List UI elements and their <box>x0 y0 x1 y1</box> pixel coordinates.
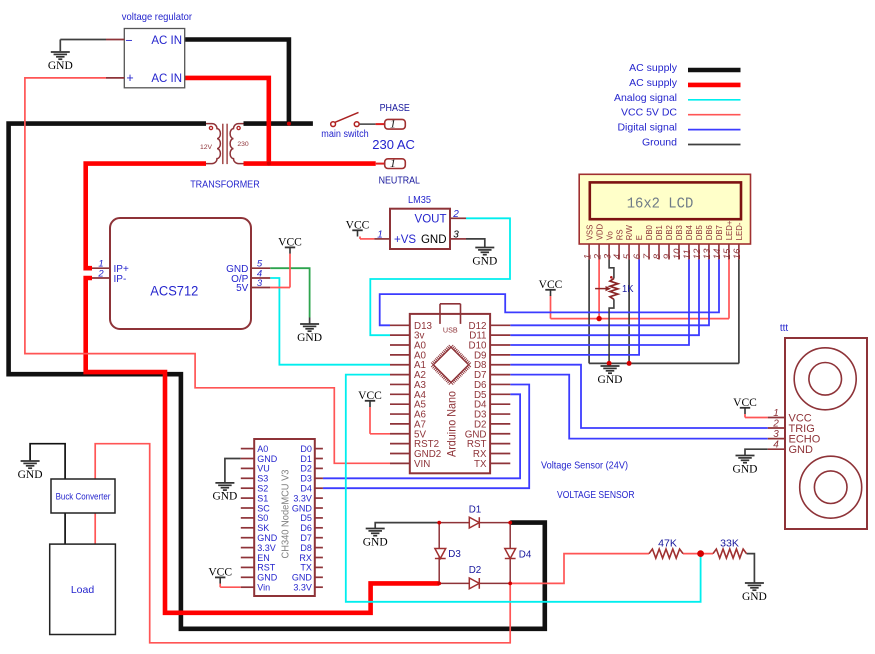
svg-text:D8: D8 <box>300 543 312 553</box>
svg-text:DB6: DB6 <box>705 225 714 240</box>
svg-text:AC IN: AC IN <box>151 73 182 85</box>
svg-text:5V: 5V <box>236 283 249 294</box>
svg-text:2: 2 <box>97 269 104 280</box>
svg-text:GND: GND <box>48 60 73 72</box>
svg-text:1: 1 <box>377 229 383 240</box>
svg-text:GND: GND <box>212 491 237 503</box>
svg-text:ACS712: ACS712 <box>150 284 198 299</box>
svg-text:D4: D4 <box>519 549 532 560</box>
svg-text:2: 2 <box>772 419 779 430</box>
svg-text:VOUT: VOUT <box>415 214 447 226</box>
svg-text:3.3V: 3.3V <box>293 493 312 503</box>
svg-text:3: 3 <box>453 229 459 240</box>
svg-text:1K: 1K <box>622 283 634 295</box>
svg-text:GND: GND <box>257 573 278 583</box>
svg-text:RX: RX <box>299 553 312 563</box>
svg-text:D1: D1 <box>469 504 482 515</box>
svg-text:16: 16 <box>732 248 743 259</box>
svg-text:47K: 47K <box>658 539 677 550</box>
svg-text:3.3V: 3.3V <box>257 543 276 553</box>
svg-text:RS: RS <box>615 229 624 240</box>
svg-text:TRANSFORMER: TRANSFORMER <box>190 180 260 191</box>
svg-text:4: 4 <box>773 440 779 451</box>
svg-text:R/W: R/W <box>625 225 634 241</box>
svg-text:S1: S1 <box>257 493 268 503</box>
svg-text:D2: D2 <box>469 565 482 576</box>
svg-text:TX: TX <box>300 563 312 573</box>
svg-text:PHASE: PHASE <box>380 103 411 114</box>
svg-text:DB1: DB1 <box>655 225 664 240</box>
svg-text:D6: D6 <box>300 523 312 533</box>
svg-text:AC supply: AC supply <box>629 77 678 89</box>
svg-text:230 AC: 230 AC <box>372 137 415 152</box>
svg-text:GND: GND <box>297 332 322 344</box>
svg-text:D3: D3 <box>300 474 312 484</box>
svg-text:16x2 LCD: 16x2 LCD <box>627 196 694 212</box>
svg-text:D7: D7 <box>300 533 312 543</box>
svg-text:1: 1 <box>390 117 396 131</box>
svg-text:GND: GND <box>742 591 767 603</box>
svg-text:Vin: Vin <box>257 583 270 593</box>
svg-text:GND: GND <box>421 234 447 246</box>
svg-text:USB: USB <box>443 325 458 334</box>
svg-text:S0: S0 <box>257 513 268 523</box>
svg-text:VOLTAGE SENSOR: VOLTAGE SENSOR <box>557 490 635 501</box>
svg-text:12V: 12V <box>200 144 213 151</box>
svg-text:1: 1 <box>390 156 396 170</box>
svg-text:D4: D4 <box>300 484 312 494</box>
svg-text:D1: D1 <box>300 454 312 464</box>
svg-text:AC supply: AC supply <box>629 62 678 74</box>
svg-text:D2: D2 <box>300 464 312 474</box>
svg-text:ttt: ttt <box>780 323 789 334</box>
svg-text:LM35: LM35 <box>408 194 431 206</box>
svg-text:GND: GND <box>257 533 278 543</box>
svg-text:S2: S2 <box>257 484 268 494</box>
svg-text:VDD: VDD <box>595 223 604 240</box>
svg-text:GND: GND <box>598 374 623 386</box>
svg-text:DB0: DB0 <box>645 224 654 240</box>
svg-text:1: 1 <box>773 408 779 419</box>
svg-text:GND: GND <box>292 573 313 583</box>
svg-text:+VS: +VS <box>394 234 416 246</box>
svg-text:NEUTRAL: NEUTRAL <box>379 176 421 187</box>
svg-text:EN: EN <box>257 553 270 563</box>
svg-text:Buck Converter: Buck Converter <box>56 492 111 502</box>
svg-text:VU: VU <box>257 464 270 474</box>
svg-text:3: 3 <box>773 429 779 440</box>
svg-text:Vo: Vo <box>605 231 614 241</box>
svg-text:RST: RST <box>257 563 276 573</box>
svg-text:DB5: DB5 <box>695 224 704 240</box>
svg-text:IP-: IP- <box>114 274 127 285</box>
svg-text:VIN: VIN <box>414 459 430 470</box>
svg-text:VCC 5V DC: VCC 5V DC <box>621 107 677 119</box>
svg-text:GND: GND <box>472 255 497 267</box>
svg-text:LED-: LED- <box>735 222 744 240</box>
svg-text:Analog signal: Analog signal <box>614 92 677 104</box>
svg-text:D0: D0 <box>300 444 312 454</box>
svg-text:CH340 NodeMCU V3: CH340 NodeMCU V3 <box>279 469 291 558</box>
svg-text:GND: GND <box>789 444 814 456</box>
svg-text:Load: Load <box>71 584 95 596</box>
svg-text:DB7: DB7 <box>715 225 724 240</box>
svg-text:−: − <box>125 33 132 47</box>
svg-text:+: + <box>126 71 133 85</box>
svg-text:Voltage Sensor (24V): Voltage Sensor (24V) <box>541 460 628 472</box>
svg-text:GND: GND <box>363 536 388 548</box>
svg-text:Arduino Nano: Arduino Nano <box>445 391 459 457</box>
svg-text:D3: D3 <box>448 549 461 560</box>
svg-text:DB4: DB4 <box>685 224 694 240</box>
svg-text:GND: GND <box>733 463 758 475</box>
svg-text:S3: S3 <box>257 474 268 484</box>
svg-text:D5: D5 <box>300 513 312 523</box>
svg-text:230: 230 <box>237 141 249 148</box>
svg-text:voltage regulator: voltage regulator <box>122 11 193 23</box>
svg-text:TX: TX <box>474 459 487 470</box>
svg-text:Digital signal: Digital signal <box>617 122 677 134</box>
svg-text:3: 3 <box>257 278 263 289</box>
svg-text:3.3V: 3.3V <box>293 583 312 593</box>
svg-text:DB3: DB3 <box>675 225 684 240</box>
svg-text:LED+: LED+ <box>725 220 734 240</box>
svg-text:SC: SC <box>257 503 270 513</box>
svg-text:DB2: DB2 <box>665 225 674 240</box>
svg-text:GND: GND <box>18 469 43 481</box>
svg-text:GND: GND <box>292 503 313 513</box>
svg-text:33K: 33K <box>720 539 739 550</box>
svg-text:2: 2 <box>452 209 459 220</box>
svg-text:E: E <box>635 235 644 240</box>
svg-text:AC IN: AC IN <box>151 35 182 47</box>
svg-text:VSS: VSS <box>585 225 594 241</box>
svg-text:main switch: main switch <box>321 129 368 140</box>
svg-text:A0: A0 <box>257 444 268 454</box>
svg-text:SK: SK <box>257 523 269 533</box>
svg-text:GND: GND <box>257 454 278 464</box>
svg-text:Ground: Ground <box>642 137 677 149</box>
